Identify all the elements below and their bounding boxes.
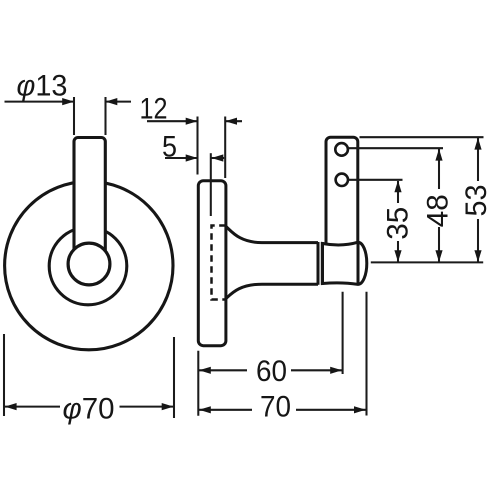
svg-text:53: 53 xyxy=(460,185,493,217)
svg-text:60: 60 xyxy=(256,355,287,388)
svg-text:φ13: φ13 xyxy=(17,70,68,103)
svg-text:φ70: φ70 xyxy=(63,393,115,426)
svg-text:70: 70 xyxy=(260,391,291,424)
svg-text:12: 12 xyxy=(140,93,168,126)
svg-text:5: 5 xyxy=(162,130,177,163)
svg-text:35: 35 xyxy=(382,207,415,240)
svg-text:48: 48 xyxy=(422,194,455,227)
